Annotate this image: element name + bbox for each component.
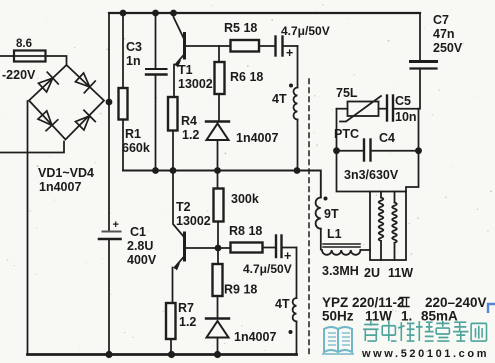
watermark text 家电维修资料网 [363,321,486,341]
lamp filament right [392,192,397,261]
watermark book icon [322,327,354,354]
resistor R7 [166,303,176,339]
svg-text:4.7μ/50V: 4.7μ/50V [243,262,292,276]
wire mains live input [0,56,67,65]
node mid bus diode [214,167,221,174]
svg-text:www.520101.com: www.520101.com [361,348,489,360]
capacitor C5 10n [379,108,387,110]
label lamp type roman II [400,298,409,307]
svg-text:R9 18: R9 18 [224,283,257,297]
bridge rectifier diamond VD1~VD4 [29,65,104,140]
node bridge plus [106,99,113,106]
svg-text:1n4007: 1n4007 [234,330,276,344]
svg-text:R5 18: R5 18 [224,21,257,35]
diode VD3 [74,110,95,131]
resistor R4 [168,97,178,131]
svg-text:400V: 400V [127,253,157,267]
wire top bus [109,12,420,14]
node C4 right [415,147,422,154]
node phase dot 9T [324,197,328,201]
wire bridge plus to top bus and down to C1 [107,13,109,355]
node bottom bus diode [214,351,221,358]
winding 4T lower [296,248,298,299]
node mid bus T [170,167,177,174]
lamp tube 2U 11W [370,192,406,261]
svg-text:50Hz: 50Hz [322,309,354,324]
thermistor PTC 75L [337,108,348,110]
svg-text:+: + [286,46,293,60]
svg-text:-220V: -220V [2,68,36,82]
svg-text:75L: 75L [336,86,358,100]
svg-text:R8 18: R8 18 [229,224,262,238]
wire C4 left rail [337,109,371,192]
svg-text:3.3MH: 3.3MH [322,264,359,278]
transistor T1 13002 [174,13,185,39]
svg-text:47n: 47n [433,27,455,41]
wire mid bus [123,171,321,198]
svg-text:4.7μ/50V: 4.7μ/50V [281,24,330,38]
svg-text:C4: C4 [379,131,395,145]
dashed separator line [308,79,310,358]
node top bus C3 [152,10,159,17]
node bottom bus R7 [168,351,175,358]
node T2 base [215,245,222,252]
node mid bus C3 [152,167,159,174]
winding 4T upper [297,46,299,88]
node phase dot 4T upper [289,84,293,88]
svg-text:3n3/630V: 3n3/630V [344,168,399,182]
lamp filament left [379,192,384,261]
watermark blue corner [488,304,495,313]
resistor R8 [231,243,263,253]
inductor L1 3.3MH [323,244,360,247]
diode D2 1n4007 lower [206,317,229,319]
svg-text:1n4007: 1n4007 [236,131,278,145]
node C4 left [333,147,340,154]
svg-text:PTC: PTC [334,127,359,141]
node bottom bus C1 [105,351,112,358]
node phase dot 4T lower [289,330,293,334]
wire mains neutral input [0,142,64,153]
capacitor C7 47n [419,13,421,61]
fuse 8.6 [14,51,46,62]
node mid bus 4T [294,167,301,174]
diode D1 1n4007 upper [206,120,229,122]
svg-text:1n4007: 1n4007 [39,180,81,194]
svg-text:T2: T2 [176,200,191,214]
svg-text:1n: 1n [126,54,141,68]
svg-text:1.2: 1.2 [182,128,199,142]
resistor R5 [231,40,260,52]
svg-text:13002: 13002 [178,77,213,91]
diode VD4 [37,110,58,131]
capacitor C1 [103,231,121,233]
svg-text:C1: C1 [130,225,146,239]
svg-text:R6 18: R6 18 [230,70,263,84]
svg-text:9T: 9T [324,207,339,221]
node top bus R1 [120,10,127,17]
svg-text:1.2: 1.2 [179,315,196,329]
svg-text:660k: 660k [122,141,150,155]
svg-text:85mA: 85mA [421,309,458,324]
winding 9T [316,198,321,229]
svg-text:VD1~VD4: VD1~VD4 [38,166,94,180]
svg-text:C7: C7 [433,13,449,27]
svg-text:+: + [284,249,291,263]
wire minus rail left [27,101,29,355]
svg-text:10n: 10n [395,110,417,124]
svg-text:2U: 2U [364,266,380,280]
svg-text:R7: R7 [178,301,194,315]
resistor R9 [217,248,219,264]
capacitor C3 [155,13,157,171]
diode VD1 [37,72,58,93]
svg-text:2.8U: 2.8U [127,239,153,253]
capacitor 4.7u/50V upper [274,37,276,56]
svg-text:R4: R4 [181,114,197,128]
capacitor C4 3n3/630V [337,150,364,152]
svg-text:8.6: 8.6 [16,38,32,50]
resistor R1 [122,13,124,171]
svg-text:R1: R1 [125,127,141,141]
svg-text:+: + [113,219,119,231]
svg-text:1.: 1. [401,309,412,324]
transistor T2 13002 [173,171,184,238]
svg-text:4T: 4T [272,92,287,106]
svg-text:T1: T1 [178,63,193,77]
wire bottom bus [28,353,297,356]
svg-text:300k: 300k [231,192,259,206]
svg-text:13002: 13002 [176,214,211,228]
node top bus T1 collector [170,10,177,17]
svg-text:L1: L1 [327,227,342,241]
capacitor 4.7u/50V lower [275,236,277,258]
svg-text:C5: C5 [395,94,411,108]
resistor 300k [217,171,219,189]
svg-text:11W: 11W [388,266,413,280]
diode VD2 [74,72,95,93]
svg-text:4T: 4T [275,297,290,311]
svg-text:250V: 250V [433,41,463,55]
svg-text:C3: C3 [126,40,142,54]
resistor R6 [218,46,220,62]
